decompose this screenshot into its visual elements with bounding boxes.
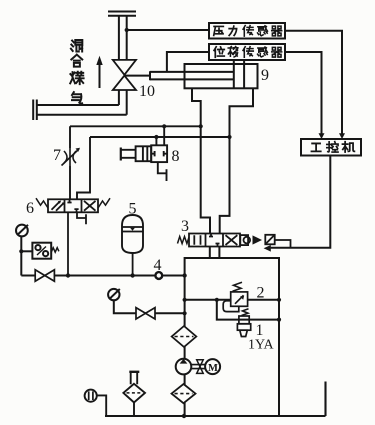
svg-text:10: 10: [139, 83, 155, 100]
svg-text:1: 1: [256, 322, 264, 339]
svg-text:2: 2: [257, 285, 265, 302]
svg-text:M: M: [208, 363, 218, 374]
svg-text:8: 8: [172, 148, 180, 165]
svg-text:6: 6: [26, 200, 34, 217]
svg-text:3: 3: [181, 218, 189, 235]
svg-text:7: 7: [53, 147, 61, 164]
svg-text:5: 5: [129, 201, 137, 218]
svg-text:9: 9: [261, 67, 269, 84]
svg-text:4: 4: [154, 257, 162, 274]
svg-text:1YA: 1YA: [248, 338, 275, 353]
